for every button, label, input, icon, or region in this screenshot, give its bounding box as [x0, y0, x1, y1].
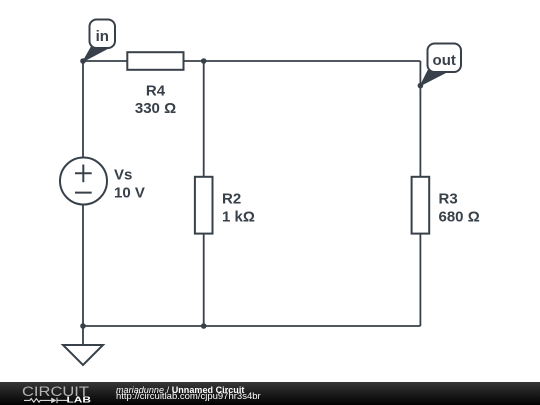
node in junction dot — [80, 58, 86, 64]
footer bar — [0, 382, 540, 405]
svg-text:680 Ω: 680 Ω — [439, 209, 480, 226]
wire right vertical (R3 bottom to bottom rail) — [419, 234, 421, 327]
node junction dot bottom middle — [201, 323, 207, 329]
svg-text:R4: R4 — [146, 83, 166, 100]
voltage source Vs — [60, 158, 145, 205]
svg-text:R3: R3 — [439, 191, 458, 208]
resistor R4 — [127, 52, 183, 117]
svg-text:out: out — [433, 52, 456, 69]
wire middle vertical (R2 bottom to bottom rail) — [203, 234, 205, 327]
svg-text:R2: R2 — [222, 191, 241, 208]
ground — [63, 345, 103, 365]
wire left vertical (node in to Vs top) — [82, 61, 84, 158]
node junction dot top middle — [201, 58, 207, 64]
svg-text:1 kΩ: 1 kΩ — [222, 209, 255, 226]
footer title text — [116, 386, 244, 395]
svg-text:Vs: Vs — [114, 166, 132, 183]
wire ground stub — [82, 326, 84, 345]
wire top-left horizontal (node in to R4) — [83, 60, 127, 62]
resistor R3 — [412, 177, 480, 234]
wire top horizontal (R4 to corner) — [184, 60, 420, 62]
svg-text:330 Ω: 330 Ω — [135, 100, 176, 117]
wire middle vertical (top rail to R2 top) — [203, 61, 205, 177]
svg-text:in: in — [96, 28, 109, 45]
svg-text:LAB: LAB — [67, 395, 92, 405]
resistor R2 — [195, 177, 255, 234]
net label in — [83, 20, 115, 62]
net label out — [420, 44, 461, 86]
node out junction dot — [418, 83, 424, 89]
CircuitLab logo — [0, 382, 110, 405]
wire left vertical (Vs bottom to bottom rail) — [82, 205, 84, 327]
wire bottom horizontal rail — [83, 325, 420, 327]
svg-text:10 V: 10 V — [114, 184, 145, 201]
wire right vertical (corner through node out to R3 top) — [419, 61, 421, 177]
node junction dot bottom left — [80, 323, 86, 329]
